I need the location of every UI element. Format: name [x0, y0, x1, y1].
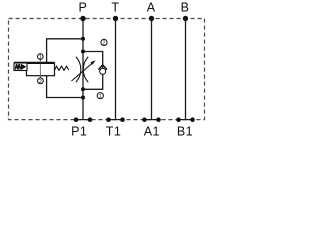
node label 1 (check valve bottom port): [97, 93, 103, 100]
svg-text:P1: P1: [71, 125, 87, 139]
svg-text:1: 1: [39, 55, 42, 61]
port T1 interface: [106, 117, 125, 122]
spring: [55, 66, 69, 70]
node B top junction: [183, 16, 188, 21]
svg-text:P: P: [79, 0, 87, 14]
wire P line: [82, 19, 84, 120]
pressure compensator valve body: [14, 63, 55, 76]
port A1 interface: [142, 117, 161, 122]
wire B line: [185, 19, 187, 120]
node junction P x check branch bottom: [81, 87, 85, 91]
svg-text:A: A: [147, 0, 156, 14]
node T top junction: [113, 16, 118, 21]
node label 2 (check valve top port): [101, 39, 107, 46]
variable throttle adjustment arrow: [72, 60, 96, 81]
node label 1 (compensator inlet port): [38, 54, 44, 63]
node label 2 (compensator outlet port): [38, 76, 44, 85]
wire compensator outlet: [47, 76, 83, 98]
svg-text:2: 2: [39, 79, 42, 85]
node junction P x compensator outlet: [81, 96, 85, 100]
variable throttle orifice arcs: [76, 57, 88, 82]
node P top junction: [80, 16, 85, 21]
check valve ball: [100, 68, 106, 74]
wire A line: [151, 19, 153, 120]
svg-text:B1: B1: [177, 125, 193, 139]
port P1 interface: [74, 117, 93, 122]
check valve seat: [98, 65, 107, 70]
wire check valve branch: [83, 52, 103, 90]
svg-text:T: T: [111, 0, 119, 14]
sandwich plate dashed enclosure: [9, 19, 205, 120]
svg-text:B: B: [181, 0, 189, 14]
svg-text:T1: T1: [106, 125, 121, 139]
svg-text:A1: A1: [144, 125, 160, 139]
wire compensator inlet: [47, 39, 83, 63]
node A top junction: [149, 16, 154, 21]
hydraulic pilot actuator box: [14, 63, 27, 71]
node junction P x compensator inlet: [81, 37, 85, 41]
node junction P x check branch top: [81, 50, 85, 54]
wire T line: [115, 19, 117, 120]
svg-text:2: 2: [103, 41, 106, 47]
port B1 interface: [176, 117, 195, 122]
svg-text:1: 1: [99, 94, 102, 100]
